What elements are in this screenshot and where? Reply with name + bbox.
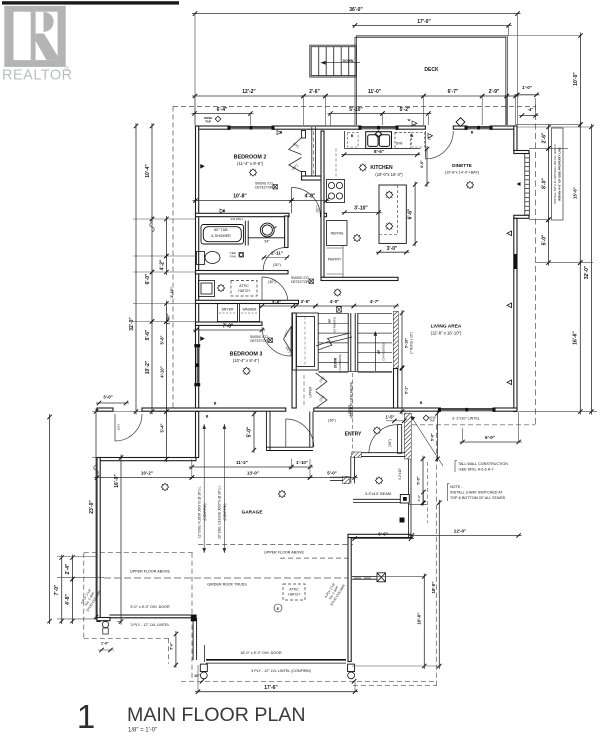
kitchen counter edge: [345, 148, 421, 150]
window living right: [514, 254, 517, 269]
svg-text:ATTIC: ATTIC: [239, 284, 249, 288]
garage east wall: [348, 538, 351, 662]
svg-text:10'-2": 10'-2": [145, 360, 151, 374]
svg-text:5'-0": 5'-0": [541, 234, 547, 245]
svg-text:(36"): (36"): [117, 424, 121, 430]
entry light: [373, 427, 380, 434]
entry south wall: [352, 453, 405, 457]
svg-text:UPPER FLOOR ABOVE: UPPER FLOOR ABOVE: [264, 551, 304, 555]
stair treads down flight: [319, 314, 349, 373]
svg-text:MAIN FLOOR PLAN: MAIN FLOOR PLAN: [127, 704, 306, 726]
svg-text:ENTRY: ENTRY: [345, 432, 362, 438]
svg-text:1'-0": 1'-0": [522, 85, 532, 90]
svg-text:8': 8': [277, 607, 280, 611]
svg-text:6'-0": 6'-0": [145, 273, 151, 284]
svg-text:HATCH: HATCH: [288, 593, 300, 597]
dim 5'-0" closet: [253, 411, 255, 453]
svg-text:D/W: D/W: [396, 142, 403, 146]
exterior wall bottom - left of house: [97, 408, 113, 411]
dim 4'-0" stairs: [313, 305, 357, 307]
svg-text:TOP & BOTTOM OF ALL STAIRS: TOP & BOTTOM OF ALL STAIRS: [450, 496, 506, 500]
svg-text:(14 RISERS): (14 RISERS): [382, 343, 386, 360]
post at left OH door: [191, 615, 197, 622]
svg-text:2x6 WALL: 2x6 WALL: [231, 217, 244, 221]
dinette light: [466, 181, 473, 188]
bedroom3 closet bifold doors west: [284, 326, 292, 352]
svg-text:5'-4": 5'-4": [160, 423, 165, 432]
svg-text:DINETTE: DINETTE: [452, 163, 472, 168]
svg-text:60" TUB: 60" TUB: [214, 228, 228, 232]
svg-text:13'-0": 13'-0": [247, 471, 259, 476]
svg-text:ATTIC: ATTIC: [289, 588, 299, 592]
exterior wall right upper: [514, 126, 517, 151]
svg-text:(10'-8"x 14'-0"+BAY): (10'-8"x 14'-0"+BAY): [445, 171, 480, 175]
front door leaf: [398, 425, 402, 454]
svg-text:(12'-8" x 16'-10"): (12'-8" x 16'-10"): [431, 331, 462, 336]
svg-text:REFRIG: REFRIG: [331, 232, 344, 236]
dryer: [218, 304, 238, 322]
entry hatched wall east: [405, 413, 411, 458]
garage west wall: [97, 458, 100, 622]
bedroom3 east wall / closet west wall: [292, 313, 296, 408]
under stair closet bifold doors: [316, 373, 327, 408]
svg-text:4'-0": 4'-0": [330, 299, 339, 304]
left tier 10'-2": [151, 319, 153, 415]
porch floor edge line: [408, 503, 427, 505]
small crossed box below dim: [337, 307, 342, 313]
svg-text:®: ®: [65, 65, 70, 73]
svg-text:4'-8": 4'-8": [65, 593, 71, 604]
svg-text:3'-6": 3'-6": [272, 300, 281, 305]
svg-text:10'-0": 10'-0": [573, 72, 579, 86]
dim 11'-0": [323, 95, 427, 97]
dim 8'-6" counter: [341, 154, 420, 156]
svg-text:3'-0": 3'-0": [387, 246, 398, 252]
dim 1'-10": [288, 466, 313, 468]
upper cabinet dashed: [335, 149, 337, 179]
svg-text:5'-10": 5'-10": [405, 338, 409, 349]
dim row 10'-2": [94, 477, 195, 479]
svg-text:5'-0": 5'-0": [417, 476, 421, 484]
svg-text:B: B: [206, 415, 209, 419]
dim 5'-10": [328, 113, 386, 115]
svg-text:23'-0": 23'-0": [89, 500, 95, 514]
column box at beam: [400, 495, 409, 504]
entry closet walls: [266, 412, 313, 451]
notch east wall: [196, 412, 199, 458]
entry porch post hatched: [343, 477, 349, 484]
svg-text:w: w: [407, 118, 411, 122]
svg-text:18'-0": 18'-0": [431, 582, 436, 594]
svg-text:9'-0" x 8'-0" O/H. DOOR: 9'-0" x 8'-0" O/H. DOOR: [130, 605, 170, 609]
svg-text:B: B: [214, 402, 217, 406]
bath door arc: [262, 247, 285, 249]
dim 4'-8": [72, 576, 74, 624]
svg-text:B: B: [411, 134, 414, 138]
dim 2'-6": [301, 95, 329, 97]
dim 2'-6" bay top: [548, 124, 550, 151]
window bedroom3 west wall: [195, 345, 200, 386]
svg-text:UP: UP: [328, 319, 332, 323]
svg-text:UPPER FLOOR ABOVE: UPPER FLOOR ABOVE: [130, 570, 170, 574]
dim 4'-7" stairs: [351, 305, 399, 307]
dashed upper floor line above garage: [198, 543, 353, 545]
dim 4'-0 right of kitchen: [426, 146, 428, 187]
cabinet dashed right of DW: [412, 132, 425, 147]
svg-text:DRYER: DRYER: [222, 308, 234, 312]
extension verticals from dim row to wall: [194, 96, 196, 125]
dim 6'-6" island: [414, 182, 416, 247]
svg-text:1'-0": 1'-0": [101, 642, 109, 646]
svg-text:6'-4": 6'-4": [217, 107, 228, 113]
bedroom3 light: [243, 367, 250, 374]
broom closet rod dashed: [313, 131, 315, 176]
toilet: [197, 252, 221, 265]
exterior wall bottom - segment 3: [314, 408, 439, 411]
left tier2 5'-4": [165, 409, 167, 463]
svg-text:5'-8": 5'-8": [160, 335, 165, 344]
dim 3'-0" side door: [96, 402, 129, 404]
deck outline: [355, 36, 507, 125]
svg-text:BEDROOM 3: BEDROOM 3: [230, 352, 263, 358]
stair center rail: [348, 313, 358, 372]
dim 13'-0": [189, 477, 313, 479]
bathtub: [201, 225, 244, 245]
porch edge wall: [330, 456, 354, 483]
svg-text:(7 RUNS x 10"): (7 RUNS x 10"): [410, 332, 414, 354]
beam 3-3x10: [353, 499, 401, 502]
stair up arrow: [374, 334, 376, 371]
left tier 6'-0": [151, 216, 153, 275]
svg-text:3'-0": 3'-0": [103, 395, 112, 400]
dim 5'-2": [379, 113, 431, 115]
bedroom2 south wall: [196, 213, 290, 216]
dashed box upper floor above left: [84, 552, 194, 554]
dim 17'-0" deck width: [352, 24, 512, 26]
bay window tag: [517, 182, 521, 186]
long dim line far left: [49, 414, 51, 624]
bedroom3 door arc: [262, 327, 291, 356]
dim 3'-0" island: [376, 251, 409, 253]
dim 2'-4": [72, 555, 74, 583]
svg-text:INSTALL 5/8" F.R. DRYWALL ON A: INSTALL 5/8" F.R. DRYWALL ON ALL WALLS: [553, 144, 557, 203]
svg-text:PANTRY: PANTRY: [328, 258, 342, 262]
linen closet: [199, 281, 215, 297]
dim row above stairs 2'-5": [293, 305, 319, 307]
REALTOR logo box: [4, 6, 65, 67]
svg-text:(CONFIRM): (CONFIRM): [203, 504, 207, 521]
extension verticals entry dims: [191, 459, 193, 479]
beam to column garage: [352, 576, 377, 579]
svg-text:(14 RISERS): (14 RISERS): [333, 317, 337, 333]
exterior wall right lower: [514, 218, 517, 411]
ceiling height marker: [274, 604, 282, 612]
dashed upper floor line 2: [280, 557, 348, 559]
svg-text:11'-0": 11'-0": [368, 89, 382, 95]
svg-text:10": 10": [194, 674, 200, 678]
svg-text:3 PLY - 12" LVL LINTEL (CONFIR: 3 PLY - 12" LVL LINTEL (CONFIRM): [251, 669, 311, 673]
left tier 5'-6": [151, 269, 153, 325]
bedroom2 closet bifold doors: [289, 138, 302, 173]
dashed vertical right of garage: [435, 425, 437, 686]
bedroom2 closet front stubs: [302, 131, 306, 139]
bedroom2 ceiling light: [249, 169, 256, 176]
garage front-left jamb: [193, 618, 197, 660]
svg-text:5'-0": 5'-0": [327, 471, 336, 476]
svg-text:15'-6": 15'-6": [573, 187, 578, 199]
svg-text:3'-10": 3'-10": [354, 206, 368, 212]
dim 5'-1 vertical: [401, 366, 403, 415]
stair break line: [316, 333, 350, 346]
svg-text:INSTALL 3-WAY SWITCHED AT: INSTALL 3-WAY SWITCHED AT: [450, 491, 503, 495]
dim 10'-0" vertical: [423, 573, 425, 669]
wall stub right of bedroom2 door: [321, 213, 327, 216]
exterior wall top - segment 5: [492, 126, 517, 129]
svg-text:1'-10": 1'-10": [169, 287, 174, 298]
dim 5'-0" bay bottom: [548, 217, 550, 266]
svg-text:4'-0": 4'-0": [420, 160, 424, 168]
hall light above stairs: [334, 289, 341, 296]
dim 6'-0" right of living: [460, 441, 522, 443]
dim 10'-8" bedroom2: [193, 200, 295, 202]
left tier2 4'-2": [165, 216, 167, 259]
svg-text:8'-6": 8'-6": [374, 149, 384, 154]
svg-text:2'-6": 2'-6": [309, 89, 320, 95]
svg-text:11'-2": 11'-2": [236, 460, 248, 465]
dim row 11'-2": [189, 466, 294, 468]
svg-text:(11'-4" x 9'-6"): (11'-4" x 9'-6"): [237, 161, 264, 166]
attic hatch garage: [283, 584, 305, 600]
garage bottom-left wall stub: [97, 618, 110, 621]
stair bottom boundary: [319, 371, 393, 373]
svg-text:3- 2"x10" LINTEL: 3- 2"x10" LINTEL: [452, 417, 480, 421]
svg-text:WASHER: WASHER: [243, 308, 258, 312]
dashed line at garage front with ticks: [181, 680, 437, 682]
svg-text:3 PLY - 12" LVL LINTEL: 3 PLY - 12" LVL LINTEL: [130, 623, 169, 627]
left tier 10'-4": [151, 123, 153, 222]
window living bottom: [439, 408, 496, 411]
vanity sink circles: [248, 223, 284, 238]
svg-text:(CONFIRM): (CONFIRM): [223, 504, 227, 521]
wall tag bedroom3 west: [200, 336, 205, 341]
bath east wall: [285, 216, 288, 248]
garage left OH door lintel: [110, 615, 193, 618]
side door opening in bottom wall: [114, 414, 116, 441]
left tier2 1'-10" a: [165, 253, 167, 275]
dim 32'-0" left: [135, 123, 137, 415]
dim 6'-7": [421, 95, 486, 97]
dim 5'-0 entry east lower: [422, 456, 424, 506]
tub partition wall: [245, 221, 248, 246]
svg-text:1'-0": 1'-0": [417, 494, 421, 501]
svg-text:2'-6": 2'-6": [541, 132, 547, 143]
svg-text:BEDROOM 2: BEDROOM 2: [234, 155, 267, 161]
bedroom2 door arc: [291, 188, 293, 214]
svg-text:5'-2": 5'-2": [400, 107, 411, 113]
dim 7'-8" laundry: [193, 329, 265, 331]
svg-text:6'-0": 6'-0": [485, 435, 495, 440]
dim 1'-0" right: [514, 94, 539, 96]
exterior wall top - segment 4 after dinette door: [453, 126, 465, 129]
pantry: [327, 246, 344, 278]
refrigerator: [327, 221, 348, 246]
garage front OH door sill: [206, 660, 346, 663]
svg-text:10'-4": 10'-4": [145, 164, 151, 178]
dim 17'-6" garage front: [195, 691, 358, 693]
bedroom3 north wall: [196, 322, 263, 325]
exterior wall top - segment 3: [398, 126, 425, 129]
dashed horizontal below garage front: [353, 685, 437, 687]
svg-text:2'-4": 2'-4": [65, 563, 71, 574]
svg-text:5'-6": 5'-6": [145, 329, 151, 340]
svg-text:6'-7": 6'-7": [448, 89, 459, 95]
svg-text:10'-2": 10'-2": [141, 471, 153, 476]
washer: [240, 304, 260, 322]
svg-text:2'-11": 2'-11": [271, 251, 283, 256]
svg-text:(10'-0"x 16'-4"): (10'-0"x 16'-4"): [375, 172, 403, 177]
dishwasher dashed box: [395, 132, 410, 148]
bay window bottom step: [514, 215, 529, 218]
dashed line bottom of right overhang: [412, 424, 536, 426]
svg-text:17'-6": 17'-6": [264, 685, 278, 691]
laundry north wall: [196, 300, 299, 303]
garage north wall (notch): [97, 458, 196, 461]
svg-text:32'-0": 32'-0": [584, 265, 590, 279]
circle column at left door corner: [102, 621, 108, 627]
deck left edge below stairs: [355, 81, 357, 125]
exterior wall bottom - segment 2: [142, 408, 286, 411]
stove: [327, 180, 345, 203]
svg-text:54": 54": [264, 240, 270, 244]
bay window top step: [514, 151, 529, 154]
dim 23'-0" garage left: [95, 409, 97, 621]
window bedroom 2: [228, 126, 274, 129]
dim 10'-0" deck right: [580, 33, 582, 128]
svg-text:-SEE DRG. A-6 & A-7: -SEE DRG. A-6 & A-7: [458, 468, 493, 472]
joist arrow 1: [203, 424, 205, 553]
dim 5'-10 runs vertical: [401, 310, 403, 371]
post front door right: [348, 664, 355, 671]
svg-text:KITCHEN: KITCHEN: [370, 165, 393, 171]
post front door left: [200, 664, 207, 671]
break squiggle on garage dim: [94, 465, 99, 475]
svg-text:(30"): (30"): [273, 263, 281, 267]
bedroom2 closet east wall lines: [312, 127, 316, 177]
svg-text:10'-8": 10'-8": [233, 194, 247, 200]
svg-text:2'-9": 2'-9": [489, 89, 500, 95]
stair treads up flight: [358, 314, 392, 373]
right extension lines: [517, 126, 593, 128]
dim 3'-10": [342, 212, 382, 214]
svg-text:4'-2": 4'-2": [160, 259, 166, 270]
dashed porch line: [427, 462, 429, 523]
top black bar: [2, 1, 179, 4]
bath south wall: [196, 271, 289, 274]
dim 12'-0": [409, 535, 522, 537]
svg-text:GARAGE: GARAGE: [241, 510, 263, 516]
kitchen south half wall: [321, 277, 398, 280]
closet bottom wall: [302, 176, 325, 180]
svg-text:10" ENG. CEILING JOISTS @ 16"o: 10" ENG. CEILING JOISTS @ 16"o.c.: [218, 485, 222, 539]
dashed upper floor outline left: [172, 107, 174, 412]
dinette patio door arc: [425, 131, 453, 159]
cabinet dashed left of sink: [348, 132, 358, 147]
svg-text:6'-0": 6'-0": [378, 532, 387, 537]
svg-text:DOWN: DOWN: [343, 59, 354, 63]
dashed line under stairs: [352, 373, 354, 452]
dim 3'-6": [259, 305, 296, 307]
exterior wall bottom - segment 4: [495, 408, 517, 411]
left extension ticks: [133, 218, 196, 220]
svg-text:UPPER: UPPER: [348, 404, 352, 416]
wall below entry: [409, 459, 412, 538]
svg-text:1'-5": 1'-5": [385, 415, 394, 420]
dashed property line right: [535, 105, 537, 426]
stair east wall hatched: [394, 312, 399, 369]
svg-text:DETECTOR: DETECTOR: [291, 280, 309, 284]
post below beam wall: [400, 518, 405, 523]
svg-text:10'-0": 10'-0": [416, 613, 421, 625]
svg-text:5'-0": 5'-0": [247, 426, 253, 437]
svg-text:8'-0": 8'-0": [541, 177, 547, 188]
hall door arc (30in): [262, 277, 288, 303]
hall closet cabinet: [293, 313, 319, 370]
deck stairs: [310, 45, 357, 77]
hall light: [217, 284, 224, 291]
garage front left jamb line: [204, 645, 206, 662]
svg-text:LIVING AREA: LIVING AREA: [431, 324, 462, 330]
svg-text:DETECTOR: DETECTOR: [255, 186, 273, 190]
dim 32'-0" right: [590, 124, 592, 415]
svg-text:FAN: FAN: [230, 255, 236, 259]
porch light: [375, 477, 382, 484]
svg-text:2'-5": 2'-5": [301, 299, 310, 304]
svg-text:17'-0": 17'-0": [417, 19, 431, 25]
attic hatch: [231, 281, 257, 297]
svg-text:HATCH: HATCH: [238, 289, 250, 293]
svg-text:12'-0": 12'-0": [454, 529, 466, 534]
dim 36'-0" overall width: [192, 13, 521, 15]
svg-text:(10'-4" x 8'-4"): (10'-4" x 8'-4"): [233, 358, 260, 363]
left tier2 4'-10": [165, 319, 167, 415]
stud column note garage right: [322, 578, 346, 606]
svg-text:3-2"x10": 3-2"x10": [398, 468, 402, 480]
vent diamond symbol on wall: [456, 118, 465, 127]
garage lights: [161, 483, 168, 490]
svg-text:TALL WALL CONSTRUCTION: TALL WALL CONSTRUCTION: [458, 462, 508, 466]
svg-text:(14 RISERS): (14 RISERS): [338, 354, 342, 371]
dim row y113: 6'-4": [192, 113, 254, 115]
svg-text:B: B: [351, 134, 354, 138]
break squiggle on left dim: [150, 222, 155, 232]
wall below stairs east: [394, 369, 398, 409]
svg-text:6'-6": 6'-6": [407, 208, 413, 219]
dim 7'-0" bottom left: [61, 555, 63, 625]
window dinette: [465, 126, 492, 129]
garage east-north wall return: [348, 534, 411, 537]
wall tags living right: [507, 231, 512, 236]
dim 18'-0" vertical: [438, 500, 440, 669]
svg-text:7'-8": 7'-8": [223, 324, 234, 330]
svg-text:(30"): (30"): [268, 280, 276, 284]
kitchen sink: [366, 131, 392, 148]
svg-text:GIRDER ROOF TRUSS: GIRDER ROOF TRUSS: [207, 583, 247, 587]
svg-text:7'-0": 7'-0": [54, 584, 60, 595]
svg-text:B: B: [420, 401, 423, 405]
dashed upper floor outline top: [173, 106, 536, 108]
svg-text:REALTOR: REALTOR: [2, 68, 73, 84]
svg-text:-4": -4": [528, 107, 534, 112]
